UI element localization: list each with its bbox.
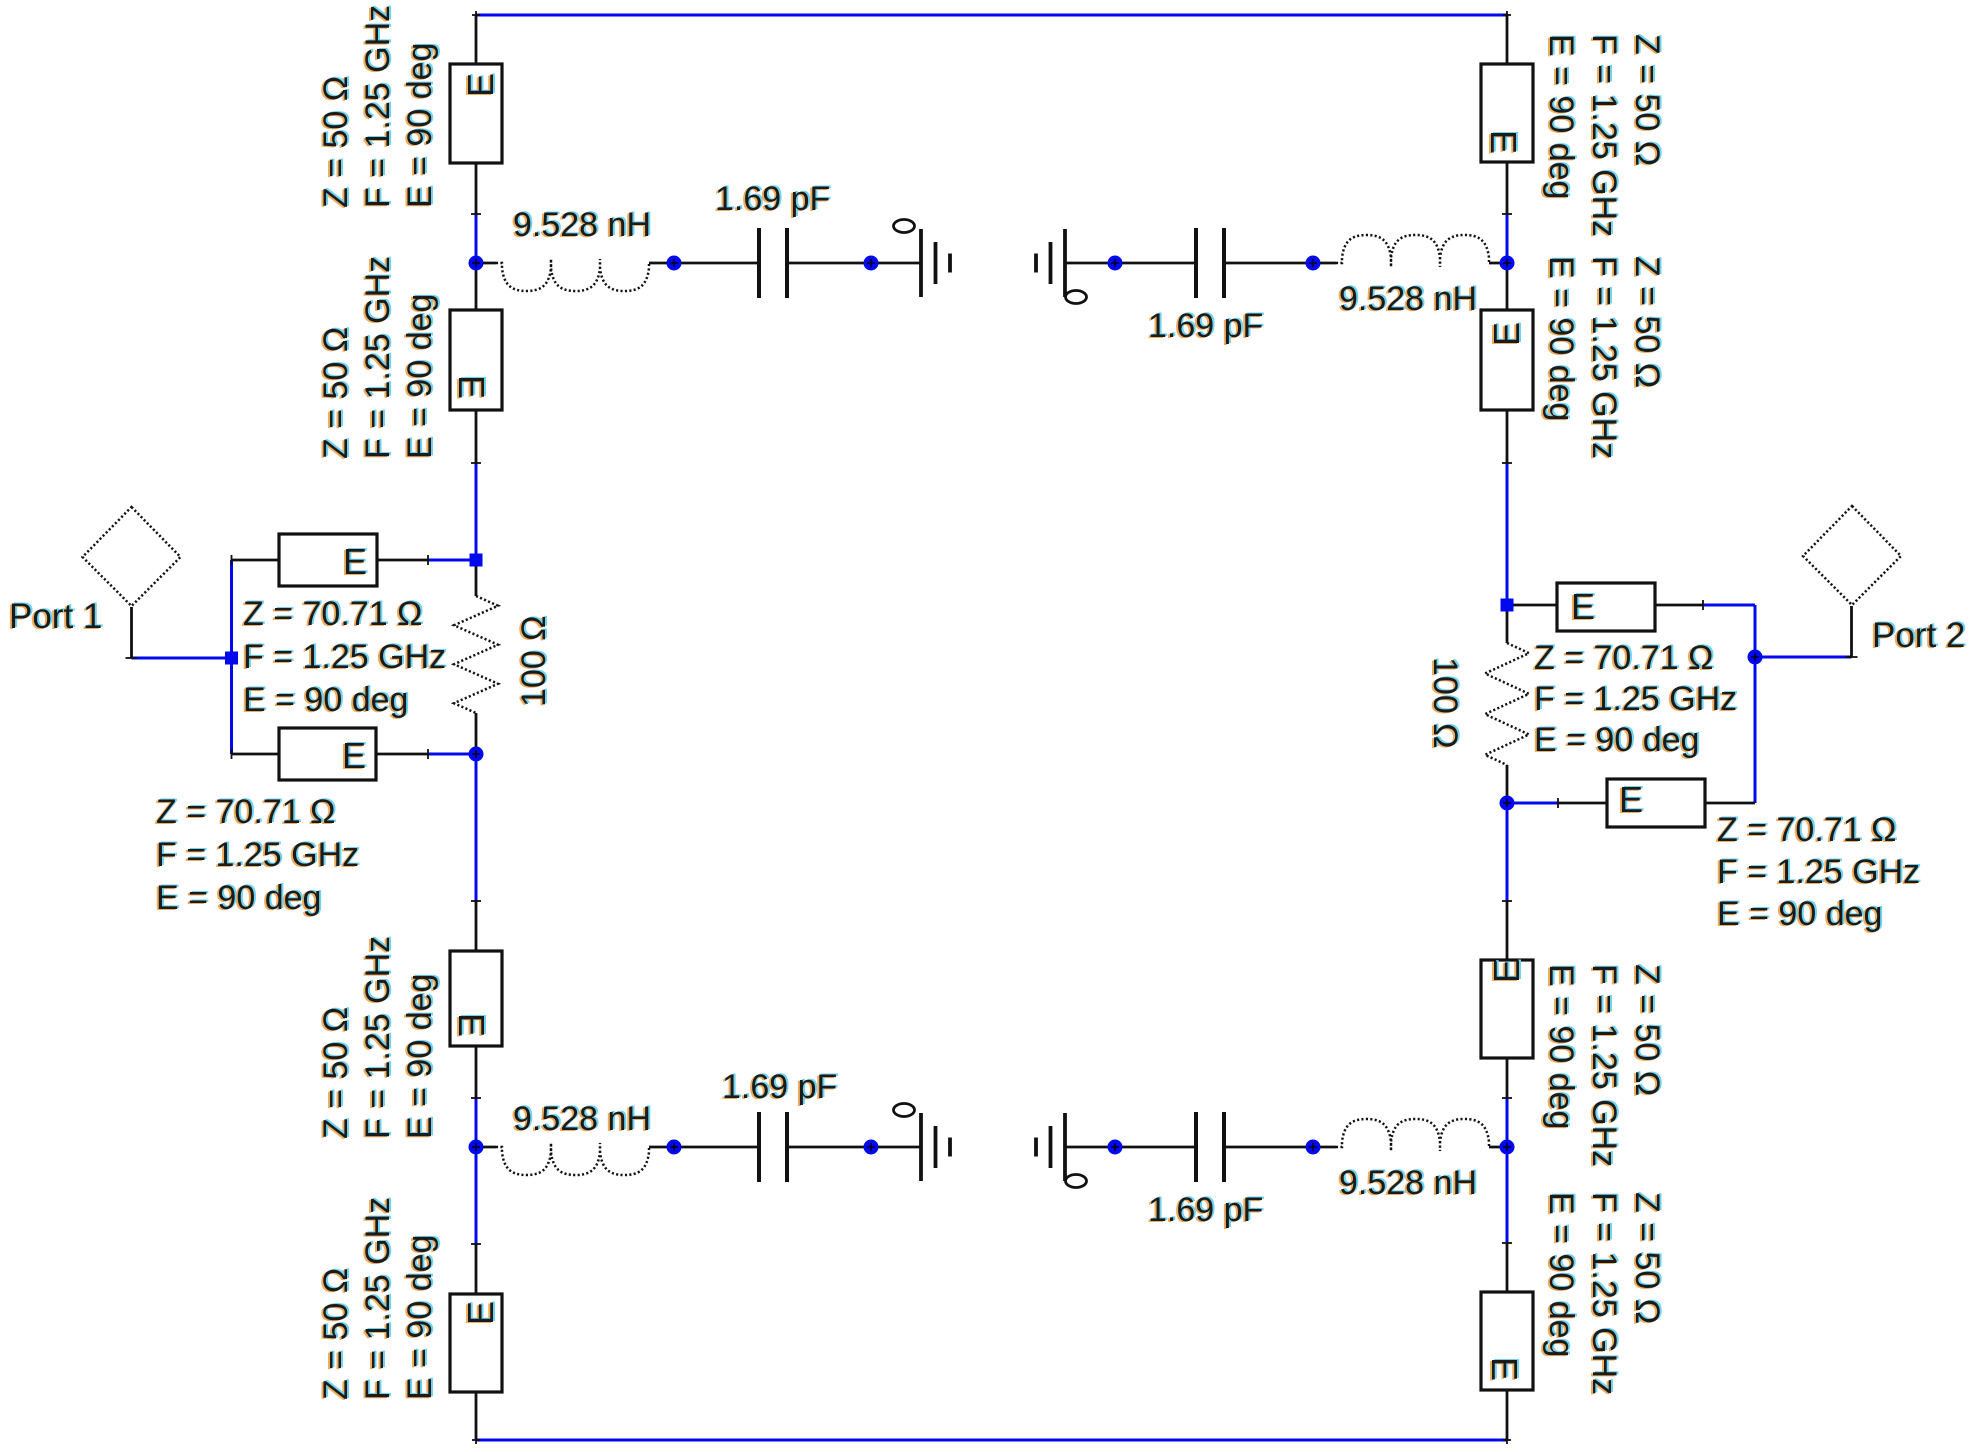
svg-text:E = 90 deg: E = 90 deg (1542, 1192, 1580, 1357)
svg-text:E: E (451, 1013, 492, 1037)
svg-text:1.69 pF: 1.69 pF (1148, 307, 1263, 345)
svg-text:E: E (1486, 959, 1527, 983)
svg-text:E = 90 deg: E = 90 deg (401, 294, 439, 459)
svg-text:Z = 70.71 Ω: Z = 70.71 Ω (243, 595, 422, 633)
svg-text:Z = 50 Ω: Z = 50 Ω (317, 1268, 355, 1400)
svg-text:E: E (1483, 130, 1524, 154)
svg-text:E = 90 deg: E = 90 deg (1717, 895, 1882, 933)
svg-text:9.528 nH: 9.528 nH (513, 206, 651, 244)
svg-text:E = 90 deg: E = 90 deg (1542, 964, 1580, 1129)
svg-text:Z = 70.71 Ω: Z = 70.71 Ω (1534, 639, 1713, 677)
svg-text:E: E (460, 73, 501, 97)
svg-text:F = 1.25 GHz: F = 1.25 GHz (1585, 34, 1623, 237)
svg-text:Z = 50 Ω: Z = 50 Ω (317, 1007, 355, 1139)
svg-text:E = 90 deg: E = 90 deg (1542, 34, 1580, 199)
svg-text:9.528 nH: 9.528 nH (513, 1100, 651, 1138)
svg-text:Z = 70.71 Ω: Z = 70.71 Ω (156, 793, 335, 831)
svg-text:F = 1.25 GHz: F = 1.25 GHz (1585, 256, 1623, 459)
svg-text:100 Ω: 100 Ω (1426, 657, 1464, 749)
svg-text:F = 1.25 GHz: F = 1.25 GHz (243, 638, 446, 676)
svg-text:F = 1.25 GHz: F = 1.25 GHz (1534, 680, 1737, 718)
svg-text:E = 90 deg: E = 90 deg (401, 1235, 439, 1400)
svg-text:Z = 50 Ω: Z = 50 Ω (317, 327, 355, 459)
svg-text:F = 1.25 GHz: F = 1.25 GHz (359, 1197, 397, 1400)
svg-text:E: E (1486, 322, 1527, 346)
svg-text:Z = 50 Ω: Z = 50 Ω (1628, 1192, 1666, 1324)
svg-text:1.69 pF: 1.69 pF (722, 1068, 837, 1106)
svg-text:Port 2: Port 2 (1872, 616, 1965, 655)
svg-text:9.528 nH: 9.528 nH (1339, 280, 1477, 318)
svg-text:Z = 50 Ω: Z = 50 Ω (1628, 256, 1666, 388)
svg-text:Z = 50 Ω: Z = 50 Ω (1628, 34, 1666, 166)
svg-text:E: E (342, 735, 366, 776)
svg-text:E: E (1571, 586, 1595, 627)
svg-text:9.528 nH: 9.528 nH (1339, 1164, 1477, 1202)
svg-text:E: E (1619, 779, 1643, 820)
svg-text:Port 1: Port 1 (9, 597, 102, 636)
svg-text:E: E (1484, 1357, 1525, 1381)
svg-text:100 Ω: 100 Ω (515, 615, 553, 707)
svg-text:Z = 50 Ω: Z = 50 Ω (317, 76, 355, 208)
svg-text:F = 1.25 GHz: F = 1.25 GHz (1585, 1192, 1623, 1395)
svg-text:E = 90 deg: E = 90 deg (156, 879, 321, 917)
svg-text:F = 1.25 GHz: F = 1.25 GHz (1717, 853, 1920, 891)
svg-text:Z = 70.71 Ω: Z = 70.71 Ω (1717, 811, 1896, 849)
svg-text:E = 90 deg: E = 90 deg (243, 681, 408, 719)
svg-text:F = 1.25 GHz: F = 1.25 GHz (359, 5, 397, 208)
svg-text:F = 1.25 GHz: F = 1.25 GHz (359, 936, 397, 1139)
svg-text:Z = 50 Ω: Z = 50 Ω (1628, 964, 1666, 1096)
svg-text:E = 90 deg: E = 90 deg (1534, 721, 1699, 759)
svg-text:E = 90 deg: E = 90 deg (401, 43, 439, 208)
svg-text:1.69 pF: 1.69 pF (1148, 1191, 1263, 1229)
svg-text:E = 90 deg: E = 90 deg (401, 974, 439, 1139)
svg-text:F = 1.25 GHz: F = 1.25 GHz (359, 256, 397, 459)
svg-text:E = 90 deg: E = 90 deg (1542, 256, 1580, 421)
svg-text:E: E (343, 541, 367, 582)
svg-text:F = 1.25 GHz: F = 1.25 GHz (1585, 964, 1623, 1167)
svg-text:E: E (460, 1301, 501, 1325)
svg-text:F = 1.25 GHz: F = 1.25 GHz (156, 836, 359, 874)
svg-text:E: E (451, 375, 492, 399)
svg-text:1.69 pF: 1.69 pF (715, 180, 830, 218)
